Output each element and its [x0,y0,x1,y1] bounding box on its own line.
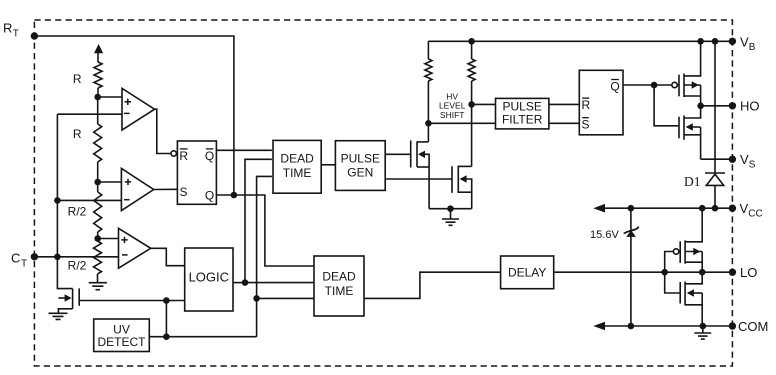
svg-text:T: T [13,29,19,40]
svg-text:LO: LO [740,265,757,280]
svg-text:S: S [749,160,756,171]
svg-text:DETECT: DETECT [98,335,147,349]
svg-text:T: T [21,258,27,269]
svg-text:HO: HO [740,99,760,114]
svg-text:SHIFT: SHIFT [440,110,465,120]
svg-text:R: R [179,149,188,163]
svg-text:PULSE: PULSE [503,99,542,113]
svg-text:D1: D1 [684,174,701,189]
svg-text:R: R [581,98,590,112]
svg-text:V: V [740,201,749,216]
svg-text:Q: Q [610,80,619,94]
svg-text:COM: COM [738,319,768,334]
svg-text:R/2: R/2 [68,204,87,218]
svg-text:R: R [73,127,82,141]
svg-text:LOGIC: LOGIC [189,270,229,285]
svg-text:Q: Q [205,149,214,163]
svg-text:C: C [11,250,20,265]
svg-text:V: V [740,152,749,167]
svg-text:S: S [581,118,589,132]
svg-text:DEAD: DEAD [280,152,314,166]
svg-text:R/2: R/2 [68,259,87,273]
svg-text:TIME: TIME [325,284,354,298]
svg-text:DEAD: DEAD [322,270,356,284]
svg-text:PULSE: PULSE [341,151,380,165]
svg-text:B: B [749,42,756,53]
svg-text:TIME: TIME [283,166,312,180]
svg-text:FILTER: FILTER [502,113,543,127]
svg-text:V: V [740,34,749,49]
svg-text:DELAY: DELAY [508,266,546,280]
svg-text:CC: CC [748,209,762,220]
svg-text:S: S [179,185,187,199]
svg-text:R: R [73,72,82,86]
svg-text:15.6V: 15.6V [590,229,619,241]
svg-text:Q: Q [205,189,214,203]
svg-text:R: R [3,21,12,36]
svg-text:GEN: GEN [347,166,373,180]
